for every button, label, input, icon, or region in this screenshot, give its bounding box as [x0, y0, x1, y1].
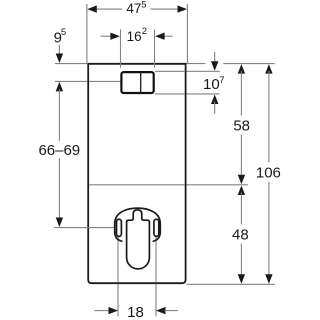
- flush plate: [121, 72, 153, 93]
- bowl mount outlet cutout: [127, 210, 150, 269]
- extension line panel top left: [55, 63, 87, 65]
- extension line panel top right: [187, 63, 206, 65]
- svg-text:18: 18: [127, 304, 144, 320]
- svg-text:10: 10: [203, 76, 220, 93]
- dimension 66-69 arrow down: [58, 159, 60, 220]
- bowl mount fixing slot right: [154, 219, 159, 236]
- extension line plate bottom: [155, 93, 185, 95]
- svg-text:5: 5: [141, 0, 146, 11]
- dimension 106 line: [265, 64, 272, 74]
- floor line: [187, 283, 275, 285]
- bowl mount fixing slot left: [117, 219, 122, 236]
- extension line width left: [86, 4, 88, 63]
- extension line plate left: [120, 30, 122, 68]
- svg-text:106: 106: [256, 164, 281, 181]
- extension line fixing height: [54, 227, 115, 229]
- extension line plate top: [155, 70, 185, 72]
- svg-text:2: 2: [142, 26, 147, 37]
- dimension 58 line: [238, 64, 245, 74]
- extension line water supply: [55, 80, 87, 82]
- dimension 9.5 arrow down: [58, 45, 60, 56]
- dimension 48 line: [238, 186, 245, 196]
- extension line fixing right: [155, 237, 157, 282]
- dimension 10.7 arrow down: [214, 52, 216, 63]
- extension line plate right: [154, 30, 156, 68]
- panel outline: [88, 64, 185, 283]
- svg-text:48: 48: [232, 227, 249, 244]
- svg-text:66–69: 66–69: [38, 142, 80, 159]
- svg-text:7: 7: [219, 75, 224, 86]
- dimension 47.5 line: [89, 8, 123, 10]
- extension line fixing left: [117, 237, 119, 282]
- svg-text:58: 58: [233, 117, 250, 134]
- flush plate divider: [140, 72, 142, 93]
- extension line width right: [186, 4, 188, 63]
- svg-text:5: 5: [61, 27, 66, 38]
- svg-text:16: 16: [127, 29, 142, 44]
- dimension 16.2 line: [101, 35, 112, 37]
- bowl mount outer contour: [115, 208, 161, 241]
- dimension 66-69 arrow up: [56, 82, 63, 92]
- dimension 10.7 arrow up: [211, 95, 218, 105]
- svg-text:47: 47: [126, 1, 141, 16]
- extension line bowl top: [89, 184, 184, 186]
- dimension 18 line: [94, 310, 109, 312]
